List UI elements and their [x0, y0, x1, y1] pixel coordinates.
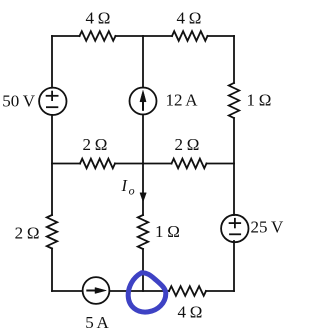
wire bottom-left segment: [52, 290, 83, 292]
wire right column middle: [233, 118, 235, 215]
wire left column middle: [51, 115, 53, 215]
svg-text:25 V: 25 V: [251, 218, 284, 237]
resistor R8 4ohm bottom: [169, 286, 206, 296]
current source I2 5A circle: [83, 277, 110, 304]
resistor R5 2ohm mid-right: [172, 159, 207, 169]
svg-text:1 Ω: 1 Ω: [155, 222, 180, 241]
wire right column upper: [233, 36, 235, 83]
Io current arrowhead down: [140, 193, 146, 202]
resistor R1 4ohm top-left: [80, 31, 116, 41]
wire middle column lower: [142, 249, 144, 291]
svg-text:I: I: [121, 176, 129, 195]
wire left column lower: [51, 249, 53, 292]
annotation blue circle around node: [128, 273, 166, 312]
wire mid row left segment: [52, 163, 80, 165]
voltage source V1 50V circle: [39, 88, 66, 115]
wire top-left segment: [52, 35, 80, 37]
voltage source V2 plus sign: [230, 222, 241, 224]
svg-text:2 Ω: 2 Ω: [15, 224, 40, 243]
wire middle column upper: [142, 36, 144, 88]
svg-text:4 Ω: 4 Ω: [178, 303, 203, 322]
svg-text:1 Ω: 1 Ω: [247, 91, 272, 110]
wire middle column mid: [142, 115, 144, 164]
svg-text:2 Ω: 2 Ω: [83, 135, 108, 154]
voltage source V2 minus sign: [230, 233, 240, 235]
wire right column lower: [233, 241, 235, 291]
voltage source V2 25V circle: [221, 215, 248, 242]
wire bottom-right segment: [206, 290, 234, 292]
svg-text:2 Ω: 2 Ω: [175, 135, 200, 154]
resistor R6 2ohm left vertical: [47, 215, 57, 249]
svg-text:50 V: 50 V: [2, 92, 35, 111]
wire left column upper: [51, 36, 53, 88]
resistor R3 1ohm right vertical: [229, 83, 239, 118]
svg-text:4 Ω: 4 Ω: [177, 9, 202, 28]
wire top-middle segment: [116, 35, 173, 37]
wire mid row center segment: [115, 163, 172, 165]
voltage source V1 plus sign: [47, 95, 58, 97]
wire middle column Io segment: [142, 164, 144, 216]
current source I1 12A circle: [130, 88, 157, 115]
current source I1 arrow up: [140, 90, 146, 111]
resistor R7 1ohm middle vertical: [138, 215, 148, 249]
wire bottom-middle segment: [110, 290, 170, 292]
voltage source V1 minus sign: [47, 106, 58, 108]
current source I2 arrow right: [86, 288, 106, 294]
wire top-right segment: [208, 35, 235, 37]
svg-text:4 Ω: 4 Ω: [86, 9, 111, 28]
svg-text:5 A: 5 A: [85, 313, 109, 332]
resistor R4 2ohm mid-left: [80, 159, 115, 169]
svg-text:o: o: [129, 184, 135, 198]
svg-text:12 A: 12 A: [166, 91, 199, 110]
resistor R2 4ohm top-right: [172, 31, 208, 41]
wire mid row right segment: [207, 163, 235, 165]
